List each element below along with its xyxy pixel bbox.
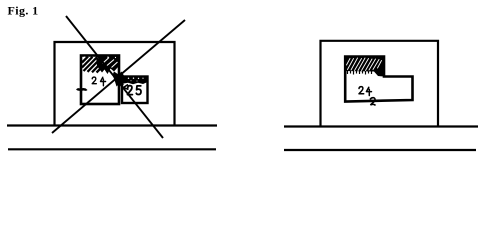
- ground line upper left: [7, 124, 217, 126]
- enclosure rectangle left: [55, 42, 175, 125]
- label 24 right : digit 2: [359, 87, 364, 94]
- figure label Fig. 1: [8, 4, 39, 18]
- hatching of stepped block: [345, 57, 384, 77]
- stepped block 24 right: [345, 57, 412, 102]
- svg-text:Fig. 1: Fig. 1: [8, 4, 39, 18]
- ground line lower right: [284, 149, 476, 151]
- box 24 hatching: [82, 57, 106, 73]
- cross-out diagonal 2 (top-right to bottom-left): [52, 20, 185, 133]
- box 25: [122, 77, 148, 104]
- cross-out diagonal 1 (top-left to bottom-right): [66, 16, 163, 138]
- leader arrowhead near label 25: [124, 85, 129, 90]
- label 25 : digit 2: [128, 86, 133, 95]
- label 25 : digit 5: [136, 86, 141, 95]
- box 25 hatching: [123, 78, 147, 85]
- label 24 left : digit 2: [92, 77, 96, 84]
- ink blob at crossing of diagonals near box 25 corner: [113, 72, 125, 87]
- label 24 left : digit 4: [101, 77, 106, 86]
- ground line upper right: [284, 125, 478, 127]
- leader squiggle 2 below label: [370, 98, 376, 106]
- leader hook on left edge of box 24: [77, 89, 86, 90]
- enclosure rectangle right: [321, 41, 439, 126]
- label 24 right : digit 4: [366, 87, 371, 95]
- ground line lower left: [8, 148, 216, 150]
- box 24: [81, 56, 119, 105]
